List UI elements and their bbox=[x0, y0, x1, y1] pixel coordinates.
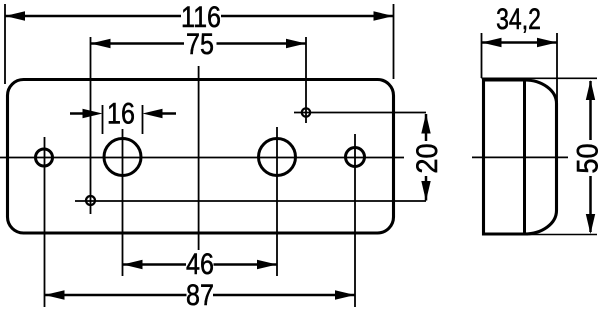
dimension line 34,2 bbox=[482, 38, 558, 47]
side view body outline bbox=[484, 80, 557, 234]
dimension line 16 (outside arrows) bbox=[70, 109, 176, 118]
dimension line 75 bbox=[91, 39, 307, 48]
horizontal centerline (side view) bbox=[472, 156, 568, 158]
dimension 16 left extension line bbox=[102, 105, 104, 134]
centerline / extension line through C4 bbox=[354, 134, 356, 307]
svg-text:75: 75 bbox=[186, 27, 214, 60]
dimension line 46 bbox=[123, 260, 278, 269]
dimension 116 right extension line bbox=[393, 4, 395, 79]
dimension line 87 bbox=[45, 290, 356, 299]
front view body outline bbox=[8, 80, 394, 234]
svg-text:87: 87 bbox=[186, 278, 214, 310]
dimension line 50 (vertical) bbox=[586, 80, 595, 234]
hole C1 (left small hole) bbox=[36, 149, 53, 166]
svg-text:16: 16 bbox=[107, 96, 135, 129]
tiny hole T1 (top right) bbox=[302, 108, 310, 116]
horizontal extension line from T2 to 20-dim bbox=[75, 200, 426, 202]
vertical centerline / extension line through T2 bbox=[90, 37, 92, 214]
svg-text:20: 20 bbox=[411, 143, 444, 173]
vertical centerline (front view middle) bbox=[198, 66, 200, 250]
dimension line 116 bbox=[5, 11, 394, 20]
dimension 116 left extension line bbox=[4, 4, 6, 84]
dimension 34,2 left extension line bbox=[481, 33, 483, 78]
dimension 16 right extension line bbox=[142, 105, 144, 134]
centerline / extension line through C1 bbox=[44, 137, 46, 307]
hole C2 (left large hole) bbox=[104, 139, 141, 176]
centerline / extension line through C3 bbox=[276, 127, 278, 276]
dimension 50 bottom extension line bbox=[529, 234, 597, 236]
dimension 50 top extension line bbox=[482, 77, 598, 79]
horizontal centerline (front view) bbox=[0, 157, 404, 159]
centerline / extension line through C2 bbox=[122, 129, 124, 276]
hole C4 (right small hole) bbox=[346, 148, 365, 167]
hole C3 (right large hole) bbox=[259, 139, 296, 176]
svg-text:34,2: 34,2 bbox=[496, 2, 541, 35]
svg-text:46: 46 bbox=[186, 247, 214, 280]
svg-text:50: 50 bbox=[571, 143, 600, 173]
dimension 34,2 right extension line bbox=[556, 33, 558, 102]
tiny hole T2 (bottom left) bbox=[86, 196, 95, 205]
horizontal extension line from T1 to 20-dim bbox=[294, 112, 426, 114]
dimension line 20 (right side, vertical) bbox=[421, 114, 430, 202]
side view lens seam line bbox=[523, 80, 526, 234]
vertical centerline / extension line through T1 bbox=[305, 37, 307, 123]
